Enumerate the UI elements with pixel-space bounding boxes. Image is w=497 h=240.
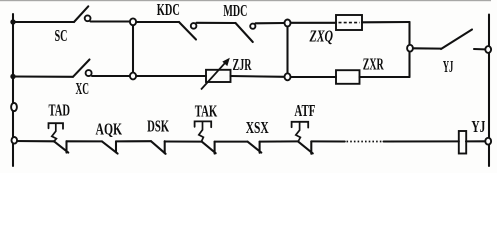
svg-text:AQK: AQK [96, 119, 123, 138]
svg-text:KDC: KDC [157, 0, 180, 19]
svg-text:SC: SC [55, 26, 68, 45]
svg-text:TAK: TAK [195, 101, 218, 120]
svg-text:ZJR: ZJR [233, 55, 252, 74]
svg-text:YJ: YJ [471, 117, 485, 136]
svg-text:ZXR: ZXR [363, 55, 384, 74]
svg-text:ATF: ATF [294, 101, 315, 120]
svg-text:YJ: YJ [443, 57, 454, 76]
svg-text:XSX: XSX [246, 118, 269, 137]
svg-text:XC: XC [76, 79, 90, 98]
svg-text:MDC: MDC [223, 1, 247, 20]
svg-text:TAD: TAD [49, 101, 71, 120]
svg-text:ZXQ: ZXQ [309, 27, 333, 46]
svg-text:DSK: DSK [147, 116, 169, 135]
